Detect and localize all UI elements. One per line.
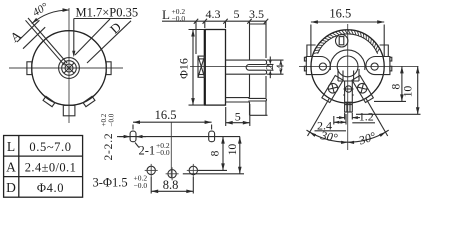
extension body rear [225,21,227,28]
table frame [4,136,83,198]
svg-text:L: L [162,7,170,22]
shaft cross [198,56,205,77]
node body circle front [32,31,107,106]
wire A extension line 2 [23,27,45,49]
wire D extension line 1 [75,19,110,55]
svg-text:−0.0: −0.0 [156,148,170,157]
arc 30 deg [307,130,389,142]
dimension Phi16 extension top [189,29,205,31]
node right tab [106,62,111,75]
cover side ledge left [307,45,316,57]
hole right [189,166,197,174]
dimension 8 right view [374,100,406,102]
dimension top row line [162,20,266,22]
svg-text:1.2: 1.2 [359,110,374,124]
svg-text:10: 10 [403,86,415,98]
svg-text:−0.0: −0.0 [108,113,116,126]
dimension 8.8 [150,177,152,194]
dome arc [330,50,365,70]
radial line left 30 [308,98,330,136]
svg-text:0.5~7.0: 0.5~7.0 [29,140,71,154]
hole left [147,166,155,174]
arrowhead arc left [32,18,38,24]
svg-text:16.5: 16.5 [155,108,177,122]
cover rim band inner arc [318,34,378,54]
center bushing circle [337,56,358,77]
leader 2-1 [135,143,139,148]
middle fork terminal [226,60,267,74]
leader M1.7 vertical [73,19,75,56]
reference line [119,136,240,138]
svg-text:2-1: 2-1 [139,144,156,158]
dimension 5 bottom [225,107,227,126]
svg-text:Φ16: Φ16 [176,58,190,79]
right angled terminal [352,75,374,102]
svg-text:A: A [6,159,16,174]
svg-text:D: D [107,19,124,36]
svg-text:D: D [6,180,16,195]
left slot [130,131,136,142]
top hole [336,35,348,47]
svg-text:8: 8 [210,150,222,156]
ticks top dims [194,19,268,24]
svg-text:A: A [7,27,24,45]
svg-text:3-Φ1.5: 3-Φ1.5 [93,176,128,190]
svg-text:Φ4.0: Φ4.0 [37,181,64,195]
dimension 10 right view [356,113,421,115]
radial line right 30 [366,98,388,136]
hole middle [168,170,176,178]
svg-text:4.3: 4.3 [206,7,221,21]
dimension 2 [267,64,274,66]
right slot [209,131,215,142]
svg-text:−0.0: −0.0 [134,181,148,190]
label 2-2.2 rotated [100,113,116,160]
wire slot line 2 [26,20,65,65]
rear plate [250,21,268,115]
left ear hole [319,63,326,70]
right ear hole [371,63,378,70]
wire D extension line 2 [87,21,131,63]
node shaft inner circle [65,64,73,72]
wire slot line 1 [28,18,67,63]
svg-text:8.8: 8.8 [163,178,179,192]
leader M1.7 horizontal [74,18,132,20]
wire: horizontal centerline [9,67,123,69]
dimension 1.2 [344,113,346,120]
wire shaft cross [64,63,74,73]
dimension 10 footprint [183,173,244,175]
dimension 40 deg arc [32,10,69,24]
arc arrowheads [310,132,317,137]
wire horizontal centerline [299,65,418,67]
dimension 4 [267,59,284,61]
svg-text:16.5: 16.5 [329,7,351,21]
svg-text:30°: 30° [356,129,377,148]
svg-text:2.4±0/0.1: 2.4±0/0.1 [25,160,76,174]
dimension 16.5 [133,121,212,123]
node lower-left tab [43,96,55,106]
left ear [306,56,330,74]
lower pin [226,98,267,102]
crown yoke [338,69,359,81]
svg-text:10: 10 [227,144,239,156]
svg-text:5: 5 [235,110,241,124]
arrowhead leader [72,51,75,58]
right ear [366,56,390,74]
node bottom tab [63,105,75,115]
body circle rear [311,30,384,103]
extension body face [204,21,206,28]
dimension Phi16 extension bottom [189,104,205,106]
dimension 16.5 top [311,21,384,23]
wire vertical centerline [347,24,349,150]
extension L left [195,21,197,54]
dimension 2.4 [333,116,335,125]
wire A extension line 1 [17,20,39,42]
node left tab [27,62,32,75]
svg-text:L: L [7,139,15,154]
dimension Phi16 line [192,30,194,106]
cover rim band hatching [313,30,379,54]
svg-text:4: 4 [275,64,287,70]
center terminal hole [345,86,351,92]
svg-text:−0.0: −0.0 [172,14,186,23]
svg-text:8: 8 [391,83,403,89]
node shaft circle [62,61,77,76]
cover side ledge right [380,45,389,57]
body rectangle [205,30,226,106]
slot width arrows [117,136,130,138]
wire: vertical centerline [68,8,70,123]
node shaft bushing circle [59,58,80,79]
svg-text:M1.7×P0.35: M1.7×P0.35 [76,6,139,20]
center terminal nubs [343,94,344,96]
svg-text:2-2.2: 2-2.2 [103,133,115,161]
wire centerline [190,65,272,67]
body front face thick [204,30,206,106]
center terminal [345,81,353,112]
dimension 8 footprint [198,169,228,171]
footprint centerline [170,122,172,178]
svg-text:5: 5 [234,7,240,21]
arrowhead arc right [63,8,70,12]
shaft rectangle [198,56,205,77]
svg-text:40°: 40° [31,1,51,20]
svg-text:3.5: 3.5 [249,7,264,21]
node lower-right tab [83,96,95,106]
left angled terminal [322,75,344,102]
